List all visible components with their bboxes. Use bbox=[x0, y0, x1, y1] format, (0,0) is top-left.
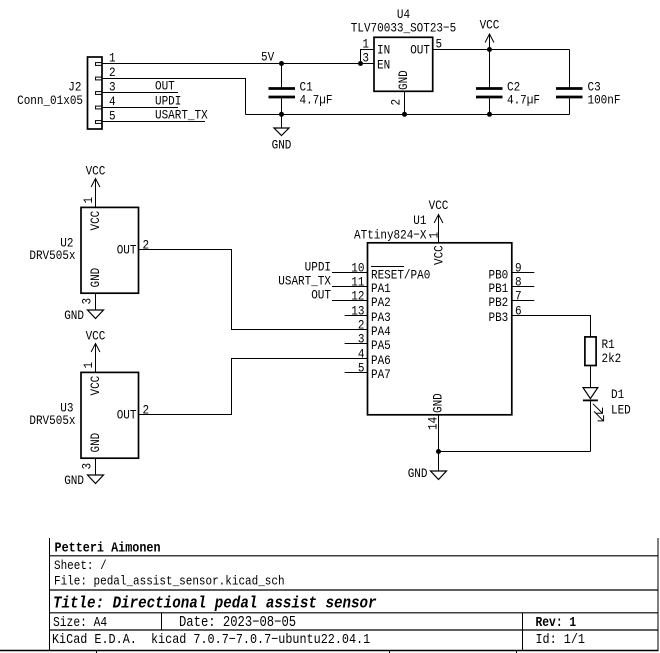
SECTION: middle sensors and mcu bbox=[29, 164, 590, 489]
svg-text:GND: GND bbox=[64, 473, 84, 488]
U3 pin 3 bbox=[80, 458, 96, 475]
SECTION: right led bbox=[583, 337, 631, 452]
junction C2 bottom bbox=[487, 112, 492, 117]
svg-text:Conn_01x05: Conn_01x05 bbox=[17, 93, 83, 108]
U4 pin 5 OUT wire to C3 bbox=[433, 37, 570, 52]
junction U1 GND bbox=[436, 449, 441, 454]
svg-text:VCC: VCC bbox=[86, 164, 106, 179]
wire 5V rail J2 pin1 to U4 EN bbox=[102, 63, 374, 65]
svg-text:VCC: VCC bbox=[88, 211, 103, 231]
svg-text:VCC: VCC bbox=[429, 198, 449, 213]
svg-text:1: 1 bbox=[81, 197, 96, 204]
svg-text:DRV505x: DRV505x bbox=[29, 413, 75, 428]
svg-text:14: 14 bbox=[426, 417, 441, 430]
svg-text:VCC: VCC bbox=[480, 18, 500, 33]
svg-text:2: 2 bbox=[389, 99, 404, 106]
svg-text:GND: GND bbox=[408, 466, 428, 481]
wire J2 pin3 bbox=[102, 92, 178, 94]
SECTION: title block bbox=[0, 538, 659, 653]
svg-text:3: 3 bbox=[358, 332, 365, 347]
U1 pin 3 PA5 bbox=[345, 332, 391, 354]
U1 pin 4 PA6 bbox=[358, 347, 391, 369]
svg-text:8: 8 bbox=[515, 275, 522, 290]
U4 pin 2 GND bbox=[389, 91, 405, 114]
svg-text:GND: GND bbox=[64, 308, 84, 323]
page border bottom bbox=[0, 650, 659, 652]
svg-text:6: 6 bbox=[515, 304, 522, 319]
wire J2 pin2 to GND rail bbox=[102, 79, 246, 115]
junction U4 EN bbox=[358, 61, 363, 66]
svg-text:2: 2 bbox=[143, 403, 150, 418]
svg-text:U1: U1 bbox=[413, 213, 426, 228]
power VCC above U1 bbox=[429, 198, 449, 242]
ground below U3 bbox=[64, 473, 103, 488]
svg-text:2: 2 bbox=[358, 318, 365, 333]
svg-text:1: 1 bbox=[81, 362, 96, 369]
svg-text:PA2: PA2 bbox=[371, 295, 391, 310]
svg-text:DRV505x: DRV505x bbox=[29, 248, 75, 263]
power VCC at U4 output bbox=[480, 18, 500, 50]
svg-text:PB3: PB3 bbox=[489, 310, 509, 325]
wire J2 pin5 bbox=[102, 121, 205, 123]
regulator U4 bbox=[351, 7, 456, 91]
svg-text:LED: LED bbox=[611, 403, 631, 418]
svg-text:UPDI: UPDI bbox=[155, 94, 181, 109]
svg-text:Id: 1/1: Id: 1/1 bbox=[536, 631, 586, 647]
svg-text:D1: D1 bbox=[611, 387, 624, 402]
wire R1 to D1 bbox=[590, 366, 592, 388]
svg-text:GND: GND bbox=[396, 70, 411, 90]
U1 pin 10 RESET/PA0 bbox=[305, 260, 431, 283]
svg-text:10: 10 bbox=[351, 261, 364, 276]
wire PB3 to R1 bbox=[512, 316, 591, 337]
wire U2 OUT to PA4 bbox=[139, 250, 368, 330]
svg-text:2: 2 bbox=[143, 238, 150, 253]
U1 pin 6 PB3 bbox=[489, 304, 522, 326]
svg-text:4: 4 bbox=[358, 347, 365, 362]
svg-text:1: 1 bbox=[362, 37, 369, 52]
resistor R1 bbox=[585, 337, 621, 366]
svg-text:4.7µF: 4.7µF bbox=[300, 93, 333, 108]
svg-text:VCC: VCC bbox=[432, 245, 447, 265]
title block frame bbox=[50, 538, 659, 651]
svg-text:Date: 2023−08−05: Date: 2023−08−05 bbox=[179, 615, 296, 631]
svg-text:PA5: PA5 bbox=[371, 338, 391, 353]
U1 pin 13 PA3 bbox=[345, 304, 391, 326]
svg-text:PA7: PA7 bbox=[371, 367, 391, 382]
junction C1 bottom bbox=[279, 112, 284, 117]
svg-text:VCC: VCC bbox=[86, 329, 106, 344]
U2 pin 3 bbox=[80, 293, 96, 310]
U1 pin 11 PA1 bbox=[278, 274, 390, 297]
SECTION: top power input bbox=[17, 7, 620, 153]
svg-text:5: 5 bbox=[358, 361, 365, 376]
svg-text:File: pedal_assist_sensor.kica: File: pedal_assist_sensor.kicad_sch bbox=[54, 574, 285, 589]
svg-text:Sheet: /: Sheet: / bbox=[54, 558, 107, 573]
page border tick center bbox=[389, 651, 391, 653]
svg-text:5: 5 bbox=[436, 37, 443, 52]
J2 pin 3 bbox=[96, 80, 116, 95]
U4 pin 1 IN bbox=[361, 37, 375, 64]
svg-text:4.7µF: 4.7µF bbox=[507, 93, 540, 108]
svg-text:OUT: OUT bbox=[155, 79, 175, 94]
U1 pin 2 PA4 bbox=[358, 318, 391, 340]
svg-text:100nF: 100nF bbox=[588, 93, 621, 108]
svg-text:PB2: PB2 bbox=[489, 295, 509, 310]
U1 pin 12 PA2 bbox=[311, 288, 391, 311]
junction U4 GND bbox=[402, 112, 407, 117]
power VCC above U2 bbox=[86, 164, 106, 208]
wire GND rail bbox=[246, 114, 570, 116]
svg-text:13: 13 bbox=[351, 304, 364, 319]
svg-text:7: 7 bbox=[515, 289, 522, 304]
svg-text:PA1: PA1 bbox=[371, 281, 391, 296]
svg-text:GND: GND bbox=[272, 138, 292, 153]
svg-text:VCC: VCC bbox=[88, 376, 103, 396]
U1 pin 9 PB0 bbox=[489, 261, 535, 283]
svg-text:EN: EN bbox=[377, 57, 390, 72]
svg-text:PA6: PA6 bbox=[371, 353, 391, 368]
svg-text:UPDI: UPDI bbox=[305, 260, 331, 275]
power VCC above U3 bbox=[86, 329, 106, 373]
hall sensor U3 bbox=[29, 372, 138, 458]
led D1 bbox=[583, 387, 631, 421]
wire GND rail to LED bbox=[439, 451, 591, 453]
svg-text:PA4: PA4 bbox=[371, 324, 391, 339]
svg-text:PB1: PB1 bbox=[489, 281, 509, 296]
U1 pin 7 PB2 bbox=[489, 289, 535, 311]
svg-text:3: 3 bbox=[362, 51, 369, 66]
U1 pin 14 GND bbox=[426, 415, 441, 452]
page border tick right bbox=[516, 651, 518, 653]
svg-text:OUT: OUT bbox=[410, 42, 430, 57]
svg-text:GND: GND bbox=[431, 393, 446, 413]
svg-text:2k2: 2k2 bbox=[602, 351, 622, 366]
ground below U2 bbox=[64, 308, 103, 323]
svg-text:1: 1 bbox=[427, 232, 442, 239]
svg-text:OUT: OUT bbox=[117, 408, 137, 423]
page border tick left bbox=[96, 651, 98, 653]
capacitor C1 bbox=[269, 64, 333, 115]
J2 pin 4 bbox=[96, 94, 116, 109]
mcu U1 bbox=[354, 213, 512, 415]
svg-text:3: 3 bbox=[80, 463, 95, 470]
connector J2 bbox=[17, 57, 102, 129]
svg-text:11: 11 bbox=[351, 275, 364, 290]
svg-text:12: 12 bbox=[351, 289, 364, 304]
ground below U1 bbox=[408, 452, 447, 482]
svg-text:R1: R1 bbox=[602, 337, 615, 352]
svg-text:KiCad E.D.A. kicad 7.0.7−7.0.: KiCad E.D.A. kicad 7.0.7−7.0.7−ubuntu22.… bbox=[52, 631, 370, 647]
hall sensor U2 bbox=[29, 207, 138, 293]
wire U3 OUT to PA6 bbox=[139, 359, 368, 415]
svg-text:GND: GND bbox=[88, 433, 103, 453]
svg-text:OUT: OUT bbox=[311, 288, 331, 303]
U1 pin 8 PB1 bbox=[489, 275, 535, 297]
junction C1 top bbox=[279, 61, 284, 66]
capacitor C3 bbox=[556, 50, 620, 115]
wire J2 pin4 bbox=[102, 107, 178, 109]
J2 pin 5 bbox=[96, 109, 116, 124]
svg-text:OUT: OUT bbox=[117, 243, 137, 258]
svg-text:USART_TX: USART_TX bbox=[278, 274, 331, 289]
svg-text:PA3: PA3 bbox=[371, 310, 391, 325]
ground below C1 bbox=[272, 115, 292, 153]
svg-text:5V: 5V bbox=[261, 50, 275, 65]
svg-text:9: 9 bbox=[515, 261, 522, 276]
wire D1 to gnd rail bbox=[590, 400, 592, 451]
svg-text:3: 3 bbox=[80, 298, 95, 305]
svg-text:Petteri Aimonen: Petteri Aimonen bbox=[55, 540, 161, 556]
svg-text:GND: GND bbox=[88, 268, 103, 288]
junction VCC node bbox=[487, 47, 492, 52]
svg-text:Rev: 1: Rev: 1 bbox=[536, 615, 577, 630]
capacitor C2 bbox=[476, 50, 540, 115]
J2 pin 1 bbox=[96, 51, 116, 66]
svg-text:TLV70033_SOT23−5: TLV70033_SOT23−5 bbox=[351, 21, 456, 36]
J2 pin 2 bbox=[96, 65, 116, 80]
svg-text:Title: Directional pedal assis: Title: Directional pedal assist sensor bbox=[53, 593, 377, 613]
U1 pin 5 PA7 bbox=[345, 361, 391, 383]
svg-text:IN: IN bbox=[377, 42, 390, 57]
svg-text:Size: A4: Size: A4 bbox=[53, 615, 107, 630]
svg-text:ATtiny824−X: ATtiny824−X bbox=[354, 228, 427, 243]
svg-text:USART_TX: USART_TX bbox=[155, 108, 208, 123]
